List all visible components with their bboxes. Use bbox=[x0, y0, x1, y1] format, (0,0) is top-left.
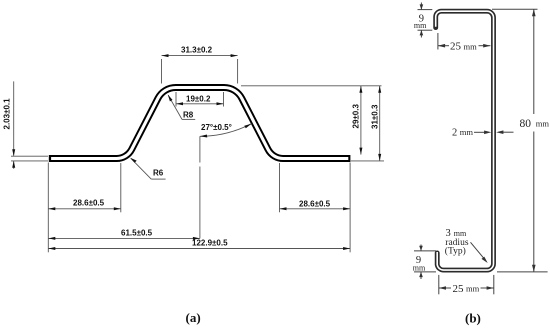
dim 122.9±0.5 bbox=[48, 238, 350, 250]
svg-text:25: 25 bbox=[450, 41, 462, 53]
dim 25 mm bottom bbox=[439, 275, 494, 295]
svg-text:2.03±0.1: 2.03±0.1 bbox=[3, 98, 12, 130]
dim 2 mm bbox=[452, 127, 514, 138]
dim 31.3±0.2 bbox=[162, 46, 238, 84]
dim 29±0.3 bbox=[352, 86, 363, 155]
svg-text:mm: mm bbox=[464, 41, 478, 51]
svg-text:122.9±0.5: 122.9±0.5 bbox=[192, 238, 228, 247]
C-channel profile outline (b) bbox=[436, 11, 494, 270]
flange bottom extension line right bbox=[351, 160, 384, 162]
radius callout R8 bbox=[168, 95, 195, 120]
dim 2.03±0.1 thickness bbox=[3, 81, 49, 168]
svg-text:R8: R8 bbox=[183, 110, 194, 119]
dim 9 mm bottom bbox=[413, 245, 436, 280]
svg-text:mm: mm bbox=[414, 21, 427, 30]
dim 80 mm bbox=[492, 9, 549, 272]
svg-text:19±0.2: 19±0.2 bbox=[186, 95, 211, 104]
dim 28.6±0.5 left bbox=[48, 198, 121, 210]
svg-text:28.6±0.5: 28.6±0.5 bbox=[299, 199, 331, 208]
dim 31±0.3 bbox=[370, 86, 381, 161]
svg-text:(a): (a) bbox=[186, 310, 201, 325]
centerline bbox=[199, 136, 201, 238]
svg-text:(b): (b) bbox=[465, 311, 481, 326]
svg-text:31.3±0.2: 31.3±0.2 bbox=[181, 46, 213, 55]
dim 9 mm top bbox=[414, 3, 432, 38]
svg-text:61.5±0.5: 61.5±0.5 bbox=[121, 228, 153, 237]
extension lines bottom bbox=[48, 163, 350, 253]
radius callout R6 bbox=[130, 158, 165, 179]
dim 25 mm top bbox=[438, 33, 491, 53]
svg-text:mm: mm bbox=[454, 229, 467, 238]
dim 61.5±0.5 bbox=[48, 228, 200, 240]
svg-text:mm: mm bbox=[460, 127, 474, 137]
svg-text:27°±0.5°: 27°±0.5° bbox=[201, 123, 232, 132]
svg-text:mm: mm bbox=[536, 119, 550, 129]
svg-text:28.6±0.5: 28.6±0.5 bbox=[73, 198, 105, 207]
dim 28.6±0.5 right bbox=[280, 199, 351, 210]
hat profile outline (a) bbox=[49, 88, 351, 159]
svg-text:31±0.3: 31±0.3 bbox=[370, 104, 379, 129]
svg-text:mm: mm bbox=[466, 284, 480, 294]
radius callout 3 mm (Typ) bbox=[445, 228, 488, 263]
top extension line right bbox=[241, 85, 382, 87]
angle dim 27°±0.5° bbox=[200, 123, 252, 138]
svg-text:(Typ): (Typ) bbox=[445, 245, 466, 256]
svg-text:mm: mm bbox=[413, 263, 426, 272]
svg-text:R6: R6 bbox=[153, 169, 164, 178]
svg-text:25: 25 bbox=[453, 283, 465, 295]
dim 19±0.2 bbox=[176, 92, 224, 107]
svg-text:2: 2 bbox=[452, 128, 457, 139]
svg-text:80: 80 bbox=[520, 118, 532, 130]
svg-text:29±0.3: 29±0.3 bbox=[352, 104, 361, 129]
